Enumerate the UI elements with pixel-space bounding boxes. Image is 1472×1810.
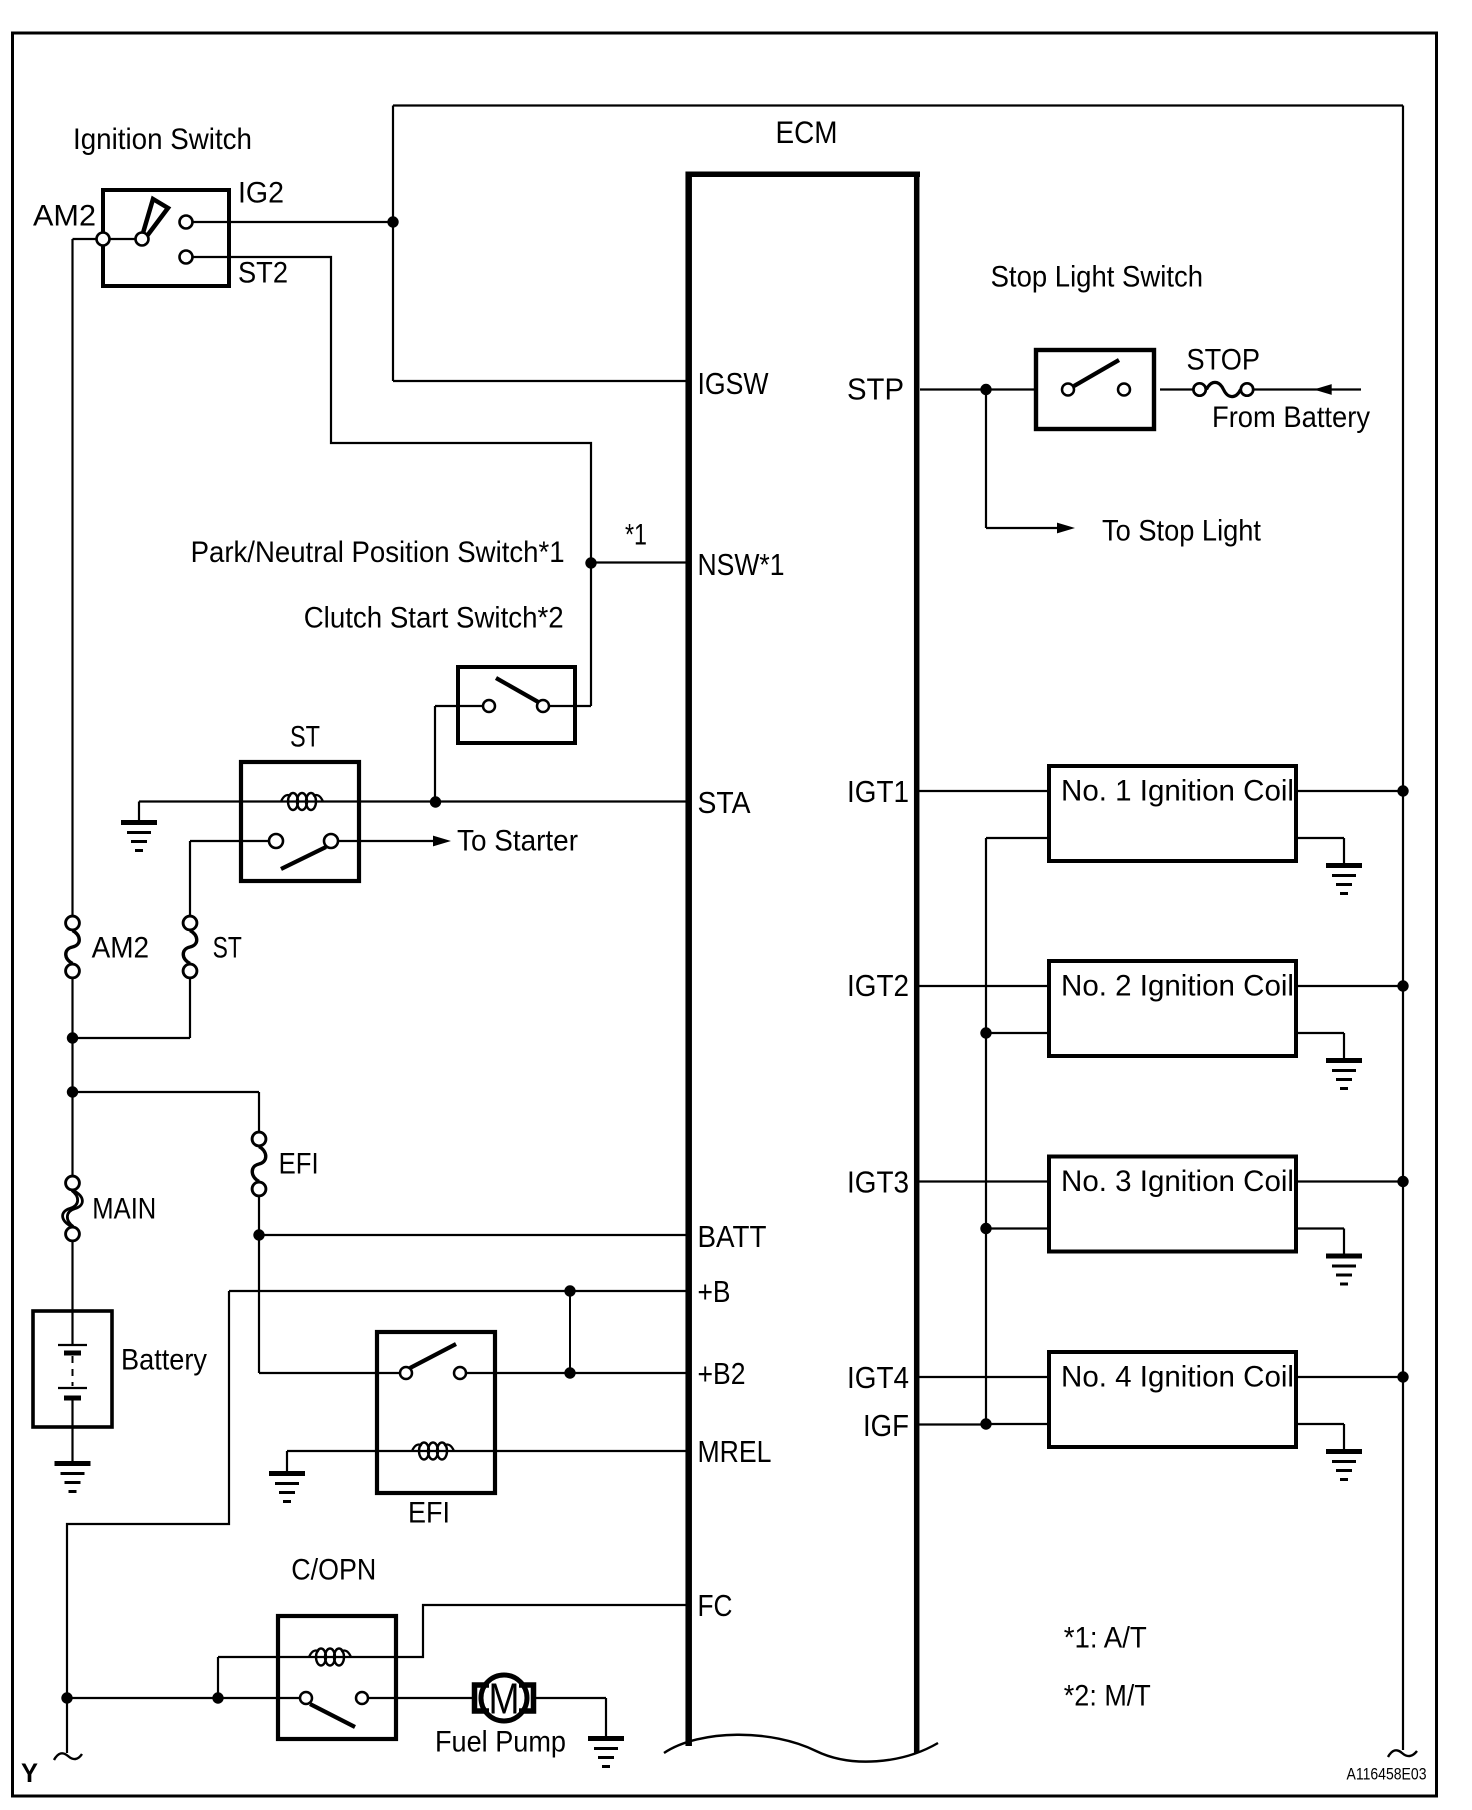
svg-text:MAIN: MAIN	[92, 1193, 156, 1226]
svg-text:To Stop Light: To Stop Light	[1102, 515, 1261, 548]
svg-text:No. 2 Ignition Coil: No. 2 Ignition Coil	[1061, 970, 1294, 1003]
svg-text:From Battery: From Battery	[1212, 401, 1370, 434]
svg-text:IGT2: IGT2	[847, 969, 909, 1003]
svg-text:STA: STA	[698, 786, 752, 820]
svg-text:Clutch Start Switch*2: Clutch Start Switch*2	[304, 602, 564, 635]
svg-text:M: M	[489, 1675, 520, 1724]
svg-text:STP: STP	[847, 373, 904, 407]
svg-text:No. 3 Ignition Coil: No. 3 Ignition Coil	[1061, 1165, 1294, 1198]
svg-text:IGT4: IGT4	[847, 1361, 909, 1395]
svg-text:MREL: MREL	[698, 1435, 772, 1469]
svg-text:No. 1 Ignition Coil: No. 1 Ignition Coil	[1061, 775, 1294, 808]
svg-text:A116458E03: A116458E03	[1347, 1765, 1427, 1784]
svg-text:*2: M/T: *2: M/T	[1064, 1680, 1151, 1713]
svg-text:AM2: AM2	[33, 200, 96, 233]
svg-text:Stop Light Switch: Stop Light Switch	[991, 261, 1203, 294]
svg-text:IGF: IGF	[863, 1409, 909, 1443]
svg-text:+B: +B	[698, 1275, 731, 1309]
svg-text:Y: Y	[21, 1758, 38, 1788]
svg-text:IG2: IG2	[238, 177, 284, 210]
svg-text:+B2: +B2	[698, 1357, 746, 1391]
svg-text:BATT: BATT	[698, 1220, 767, 1254]
svg-text:*1: A/T: *1: A/T	[1064, 1622, 1147, 1655]
svg-text:No. 4 Ignition Coil: No. 4 Ignition Coil	[1061, 1361, 1294, 1394]
svg-text:AM2: AM2	[92, 932, 150, 965]
svg-text:ST: ST	[213, 932, 242, 965]
svg-text:Park/Neutral Position Switch*1: Park/Neutral Position Switch*1	[191, 536, 565, 569]
svg-text:ST2: ST2	[238, 257, 288, 290]
svg-text:EFI: EFI	[408, 1497, 450, 1530]
svg-text:To Starter: To Starter	[457, 825, 578, 858]
svg-text:IGT1: IGT1	[847, 775, 909, 809]
svg-text:Fuel Pump: Fuel Pump	[435, 1726, 566, 1759]
svg-text:C/OPN: C/OPN	[291, 1554, 376, 1587]
svg-text:ST: ST	[290, 721, 320, 754]
svg-text:Ignition Switch: Ignition Switch	[73, 123, 252, 156]
svg-text:Battery: Battery	[121, 1344, 207, 1377]
svg-text:*1: *1	[625, 519, 647, 552]
svg-text:STOP: STOP	[1187, 343, 1261, 376]
svg-text:NSW*1: NSW*1	[698, 548, 785, 582]
svg-text:ECM: ECM	[776, 114, 838, 150]
svg-text:EFI: EFI	[279, 1148, 319, 1181]
svg-text:FC: FC	[698, 1589, 733, 1623]
svg-text:IGT3: IGT3	[847, 1166, 909, 1200]
svg-text:IGSW: IGSW	[698, 367, 769, 401]
